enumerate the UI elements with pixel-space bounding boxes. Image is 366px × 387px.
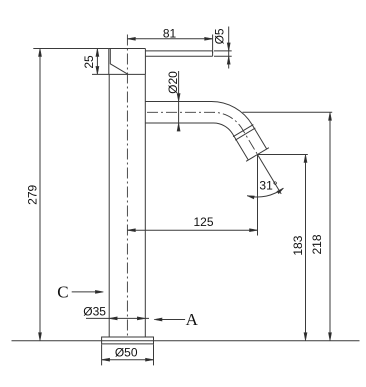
svg-text:125: 125 <box>193 215 213 229</box>
svg-text:25: 25 <box>82 55 96 69</box>
svg-text:C: C <box>57 282 68 301</box>
svg-text:279: 279 <box>26 184 40 204</box>
svg-text:218: 218 <box>310 234 324 254</box>
svg-text:31°: 31° <box>259 179 277 193</box>
svg-text:Ø35: Ø35 <box>83 304 106 318</box>
svg-text:183: 183 <box>291 235 305 255</box>
svg-text:Ø50: Ø50 <box>115 346 138 360</box>
svg-text:A: A <box>186 310 199 329</box>
svg-text:Ø20: Ø20 <box>166 71 180 94</box>
svg-text:81: 81 <box>163 26 177 40</box>
svg-text:Ø5: Ø5 <box>213 28 227 44</box>
